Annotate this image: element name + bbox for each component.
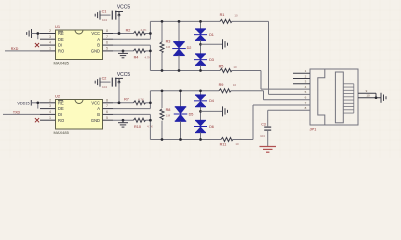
- wire B row: [113, 44, 150, 46]
- resistor R10: [134, 118, 154, 129]
- svg-text:5: 5: [106, 47, 108, 51]
- svg-text:R7: R7: [124, 98, 129, 102]
- svg-text:DI: DI: [58, 112, 62, 117]
- svg-text:VCC5: VCC5: [117, 72, 131, 78]
- no-connect DI U1: [35, 43, 39, 47]
- no-connect RO U2: [35, 118, 39, 122]
- svg-text:RXD: RXD: [11, 47, 19, 51]
- wire B row U2: [113, 113, 150, 115]
- svg-text:DE: DE: [58, 106, 64, 111]
- svg-text:D1: D1: [209, 33, 214, 37]
- svg-text:U2: U2: [55, 93, 61, 98]
- TVS diode D2 (A-B): [172, 20, 191, 72]
- resistor R11: [220, 138, 239, 147]
- svg-text:4.7K: 4.7K: [145, 55, 151, 59]
- ground (bottom TVS mid): [201, 106, 228, 116]
- wire J1 pin8 to C3: [268, 110, 310, 126]
- svg-text:A: A: [97, 106, 100, 111]
- svg-text:7: 7: [106, 104, 108, 108]
- wire RE-DE tie U2: [36, 101, 39, 108]
- resistor R7: [124, 98, 150, 105]
- svg-text:DI: DI: [58, 43, 62, 48]
- svg-text:6: 6: [106, 41, 108, 45]
- svg-text:R11: R11: [220, 142, 227, 146]
- svg-text:R3: R3: [166, 40, 171, 44]
- svg-text:1: 1: [49, 116, 51, 120]
- svg-text:2: 2: [49, 98, 51, 102]
- resistor R1: [220, 13, 238, 23]
- resistor R4: [134, 49, 151, 60]
- svg-text:A: A: [97, 37, 100, 42]
- wire RXD: [5, 50, 40, 52]
- wire A row U2: [113, 108, 150, 110]
- power port VCC5 (top): [115, 5, 130, 17]
- wire rail B1: [150, 70, 220, 72]
- svg-text:2: 2: [49, 29, 51, 33]
- earth ground (C3): [260, 147, 277, 153]
- svg-text:4: 4: [49, 41, 51, 45]
- wire rail B2 right: [233, 139, 253, 141]
- resistor R2: [126, 28, 151, 35]
- wire rail A1 right: [232, 20, 269, 22]
- svg-text:R9: R9: [219, 83, 224, 87]
- svg-text:8: 8: [106, 29, 108, 33]
- svg-text:4: 4: [49, 110, 51, 114]
- svg-text:D4: D4: [209, 99, 214, 103]
- svg-text:4.7K: 4.7K: [138, 98, 144, 102]
- capacitor C3: [260, 122, 271, 146]
- wire B1 to J1 pin4: [261, 71, 310, 90]
- ground (U1 GND): [118, 51, 128, 58]
- svg-text:B: B: [97, 112, 100, 117]
- ground (U2 GND): [118, 120, 128, 127]
- svg-text:R4: R4: [134, 56, 139, 60]
- capacitor C1: [100, 9, 119, 21]
- svg-text:3: 3: [49, 104, 51, 108]
- svg-text:GND: GND: [91, 49, 100, 54]
- svg-text:VCC: VCC: [91, 100, 100, 105]
- net label RXD: [11, 47, 19, 51]
- wire rail A2 right: [231, 90, 264, 92]
- svg-text:VCC5: VCC5: [117, 5, 131, 11]
- power port VDD15: [17, 100, 40, 106]
- svg-text:3: 3: [49, 35, 51, 39]
- wire D4-D6 mid: [199, 107, 202, 121]
- svg-text:4.7K: 4.7K: [141, 28, 147, 32]
- svg-text:R5: R5: [219, 65, 224, 69]
- svg-text:B: B: [97, 43, 100, 48]
- svg-text:7: 7: [106, 35, 108, 39]
- svg-text:10: 10: [366, 94, 370, 98]
- wire net-A bracket: [149, 21, 152, 39]
- svg-text:104: 104: [102, 85, 107, 89]
- svg-text:C2: C2: [102, 76, 107, 80]
- svg-text:GND: GND: [91, 118, 100, 123]
- TVS diode D5 (A-B): [174, 89, 194, 140]
- svg-text:D3: D3: [209, 58, 214, 62]
- svg-text:VCC: VCC: [91, 31, 100, 36]
- svg-text:R10: R10: [134, 125, 141, 129]
- wire VCC5 to U2 pin 8: [118, 82, 121, 104]
- wire B2 to J1 pin7: [253, 105, 310, 140]
- IC U1 MAX485 RS-485 transceiver: [40, 24, 113, 66]
- svg-text:MAX485: MAX485: [54, 130, 70, 135]
- svg-text:10: 10: [233, 83, 237, 87]
- svg-text:8: 8: [106, 98, 108, 102]
- svg-text:R1: R1: [220, 13, 225, 17]
- svg-text:104: 104: [260, 134, 265, 138]
- svg-text:D2: D2: [187, 46, 192, 50]
- wire VCC5 to U1 pin 8: [118, 15, 121, 35]
- IC U2 MAX485 RS-485 transceiver: [40, 93, 113, 135]
- wire VCC row U2: [113, 101, 134, 104]
- wire rail B1 right: [232, 70, 261, 72]
- svg-text:5: 5: [106, 116, 108, 120]
- svg-text:R2: R2: [126, 28, 131, 32]
- svg-text:R8: R8: [166, 108, 171, 112]
- svg-text:10: 10: [233, 65, 237, 69]
- resistor R5: [219, 65, 237, 73]
- svg-text:MAX485: MAX485: [54, 61, 70, 66]
- svg-text:DE: DE: [58, 37, 64, 42]
- ground (top TVS mid): [201, 39, 228, 49]
- svg-text:TXD: TXD: [13, 110, 21, 114]
- svg-text:6: 6: [106, 110, 108, 114]
- svg-text:C1: C1: [102, 9, 107, 13]
- ground (C1 left): [95, 11, 100, 20]
- svg-text:RE: RE: [58, 31, 64, 36]
- svg-text:1M: 1M: [166, 113, 171, 117]
- svg-text:C3: C3: [261, 122, 266, 126]
- svg-text:1: 1: [49, 47, 51, 51]
- resistor R8 termination: [160, 89, 171, 140]
- TVS diode D6 (B-GND): [194, 121, 214, 141]
- wire rail A1: [150, 20, 220, 22]
- wire RE-DE tie: [36, 32, 39, 39]
- capacitor C2: [100, 76, 119, 89]
- TVS diode D1 (A-GND): [194, 20, 214, 40]
- wire A1 to J1 pin5: [269, 21, 311, 94]
- wire GND row U2: [113, 119, 134, 122]
- svg-text:VDD15: VDD15: [17, 101, 29, 105]
- wire A2 to J1 pin6: [264, 91, 311, 100]
- svg-text:D5: D5: [189, 112, 194, 116]
- svg-text:U1: U1: [55, 24, 61, 29]
- wire rail B2: [150, 139, 221, 141]
- ground (J1 shield): [381, 93, 386, 103]
- wire D1-D3 mid: [199, 40, 202, 54]
- wire VCC row: [113, 32, 134, 35]
- ground (RE/DE enable): [27, 29, 40, 38]
- wire net-B bracket U2: [149, 114, 152, 139]
- wire TXD: [3, 113, 40, 115]
- svg-text:10: 10: [235, 142, 239, 146]
- ground (C2 left): [95, 78, 100, 87]
- designator JP1: [310, 127, 318, 132]
- svg-text:10: 10: [234, 13, 238, 17]
- net label TXD: [13, 110, 21, 114]
- wire net-B bracket: [149, 45, 152, 70]
- svg-text:JP1: JP1: [310, 127, 318, 132]
- wire rail A2: [150, 90, 219, 92]
- TVS diode D3 (B-GND): [194, 54, 214, 72]
- svg-text:1M: 1M: [166, 45, 171, 49]
- connector J1 pins 9-10: [358, 89, 381, 99]
- svg-text:RO: RO: [58, 49, 64, 54]
- resistor R3 termination: [160, 20, 171, 72]
- connector J1 RJ45 body: [310, 69, 358, 125]
- svg-text:D6: D6: [209, 125, 214, 129]
- wire GND row: [113, 50, 134, 53]
- resistor R9: [219, 83, 237, 93]
- svg-text:RE: RE: [58, 100, 64, 105]
- svg-text:104: 104: [102, 18, 107, 22]
- TVS diode D4 (A-GND): [194, 89, 214, 106]
- wire net-A bracket U2: [149, 91, 152, 109]
- svg-text:RO: RO: [58, 118, 64, 123]
- wire A row: [113, 38, 150, 40]
- connector J1 left pins 1-8: [293, 69, 310, 110]
- power port VCC5 (bottom): [115, 72, 130, 83]
